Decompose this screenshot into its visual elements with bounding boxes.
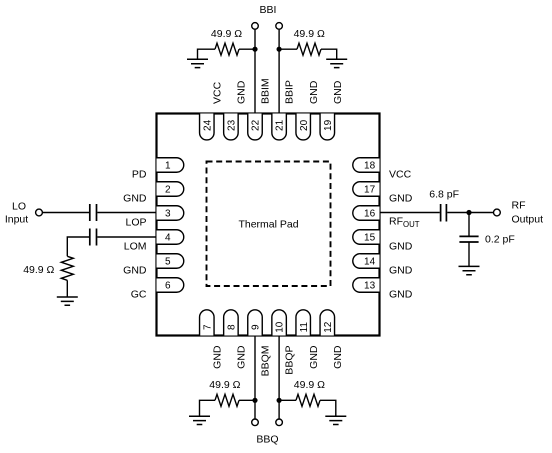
junction BBQM	[252, 398, 257, 403]
pin 8	[224, 310, 239, 336]
svg-text:12: 12	[323, 321, 334, 333]
svg-text:14: 14	[364, 257, 376, 268]
svg-text:3: 3	[165, 209, 171, 220]
svg-text:GND: GND	[211, 345, 223, 369]
terminal BBQ minus	[252, 419, 259, 426]
IC body U1 (QFN-24)	[157, 114, 380, 336]
svg-text:GND: GND	[332, 80, 344, 104]
svg-text:BBQM: BBQM	[260, 346, 272, 377]
terminal BBQ plus	[276, 419, 283, 426]
pin 18	[353, 158, 380, 173]
ground (BBI left)	[187, 59, 208, 67]
svg-text:23: 23	[227, 119, 238, 131]
svg-text:GND: GND	[389, 264, 413, 276]
pin 12	[320, 310, 335, 336]
svg-text:15: 15	[364, 233, 376, 244]
svg-text:7: 7	[202, 324, 213, 330]
pin 13	[353, 278, 380, 293]
resistor 49.9 ohm (BBQ right)	[296, 394, 320, 406]
terminal RF output	[494, 209, 501, 216]
ground (LO term)	[57, 297, 78, 305]
svg-text:49.9 Ω: 49.9 Ω	[294, 379, 325, 391]
pin 6	[157, 278, 184, 293]
svg-text:49.9 Ω: 49.9 Ω	[294, 28, 325, 40]
svg-text:Output: Output	[512, 214, 544, 226]
capacitor C1 (LOP coupling)	[90, 204, 97, 221]
svg-text:10: 10	[275, 321, 286, 333]
pin 2	[157, 182, 184, 197]
wire junction to C4	[468, 213, 470, 237]
pin 23	[224, 114, 239, 140]
resistor 49.9 ohm (LO term)	[61, 256, 73, 280]
wire RFOUT pin16 to C3	[380, 212, 440, 214]
wire C3 to RF output terminal	[447, 212, 493, 214]
pin 11	[296, 310, 311, 336]
svg-text:49.9 Ω: 49.9 Ω	[209, 379, 240, 391]
svg-text:PD: PD	[132, 168, 147, 180]
pin 14	[353, 254, 380, 269]
pin 22	[248, 114, 263, 140]
resistor 49.9 ohm (BBQ left)	[215, 394, 239, 406]
svg-text:16: 16	[364, 209, 376, 220]
wire C2 to LOM pin 4	[97, 236, 156, 238]
svg-text:GND: GND	[389, 240, 413, 252]
pin 17	[353, 182, 380, 197]
svg-text:BBQP: BBQP	[284, 346, 296, 375]
svg-text:GND: GND	[123, 192, 147, 204]
svg-text:24: 24	[202, 119, 213, 131]
svg-text:18: 18	[364, 161, 376, 172]
svg-text:BBIP: BBIP	[284, 80, 296, 104]
svg-text:5: 5	[165, 257, 171, 268]
pin 5	[157, 254, 184, 269]
wire C2 to R term	[67, 237, 89, 256]
svg-text:GND: GND	[308, 345, 320, 369]
capacitor C4 0.2 pF	[459, 236, 478, 242]
wire BBIM vertical	[254, 29, 256, 113]
svg-text:GND: GND	[236, 80, 248, 104]
svg-text:BBIM: BBIM	[260, 78, 272, 104]
resistor 49.9 ohm (BBI right)	[297, 43, 321, 55]
terminal BBI plus	[276, 23, 283, 30]
pin 1	[157, 158, 184, 173]
svg-text:4: 4	[165, 233, 171, 244]
svg-text:GND: GND	[308, 80, 320, 104]
wire BBIP vertical	[278, 29, 280, 113]
svg-text:19: 19	[323, 119, 334, 131]
pin 9	[248, 310, 263, 336]
wire BBQM vertical	[254, 336, 256, 420]
wire R to ground	[66, 280, 68, 297]
pin 7	[200, 310, 215, 336]
wire C4 to ground	[468, 242, 470, 266]
svg-text:49.9 Ω: 49.9 Ω	[23, 264, 54, 276]
capacitor C3 6.8 pF	[441, 204, 447, 222]
pin 3	[157, 206, 184, 221]
svg-text:Input: Input	[5, 213, 28, 225]
pin 10	[272, 310, 287, 336]
svg-text:6: 6	[165, 281, 171, 292]
pin 20	[296, 114, 311, 140]
junction RF output	[466, 210, 471, 215]
ground (BBQ left)	[189, 416, 210, 424]
wire BBQ left resistor leads	[200, 400, 256, 416]
svg-text:RF: RF	[512, 200, 526, 212]
wire BBI left resistor leads	[198, 49, 256, 59]
svg-text:20: 20	[299, 119, 310, 131]
terminal BBI minus	[252, 23, 259, 30]
svg-text:GC: GC	[131, 288, 147, 300]
capacitor C2 (LOM coupling)	[90, 229, 97, 246]
terminal LO input	[36, 209, 43, 216]
svg-text:GND: GND	[123, 264, 147, 276]
ground (RF output)	[459, 266, 480, 274]
svg-text:GND: GND	[332, 345, 344, 369]
thermal pad	[207, 162, 331, 287]
resistor 49.9 ohm (BBI left)	[215, 43, 239, 55]
svg-text:BBI: BBI	[260, 4, 277, 16]
pin 16	[353, 206, 380, 221]
svg-text:LO: LO	[12, 201, 26, 213]
svg-text:VCC: VCC	[389, 168, 412, 180]
svg-text:0.2 pF: 0.2 pF	[485, 233, 515, 245]
wire C1 to LOP pin 3	[97, 212, 156, 214]
svg-text:13: 13	[364, 281, 376, 292]
svg-text:22: 22	[251, 119, 262, 131]
svg-text:2: 2	[165, 185, 171, 196]
svg-text:LOP: LOP	[125, 216, 146, 228]
wire BBQ right resistor leads	[279, 400, 336, 416]
junction BBIP	[277, 47, 282, 52]
svg-text:BBQ: BBQ	[256, 434, 278, 446]
pin 21	[272, 114, 287, 140]
junction BBIM	[252, 47, 257, 52]
svg-text:GND: GND	[236, 345, 248, 369]
wire LO input to C1	[42, 212, 89, 214]
pin 19	[320, 114, 335, 140]
pin 15	[353, 230, 380, 245]
pin 4	[157, 230, 184, 245]
svg-text:LOM: LOM	[124, 240, 147, 252]
svg-text:RFOUT: RFOUT	[389, 216, 420, 230]
svg-text:GND: GND	[389, 192, 413, 204]
svg-text:11: 11	[299, 322, 310, 333]
svg-text:21: 21	[275, 119, 286, 131]
svg-text:17: 17	[364, 185, 376, 196]
ground (BBQ right)	[325, 416, 346, 424]
pin 24	[200, 114, 215, 140]
svg-text:49.9 Ω: 49.9 Ω	[211, 28, 242, 40]
wire BBI right resistor leads	[279, 49, 337, 59]
wire BBQP vertical	[278, 336, 280, 420]
svg-text:Thermal Pad: Thermal Pad	[238, 219, 298, 231]
junction BBQP	[277, 398, 282, 403]
svg-text:8: 8	[227, 324, 238, 330]
svg-text:VCC: VCC	[211, 81, 223, 104]
svg-text:1: 1	[165, 161, 171, 172]
svg-text:GND: GND	[389, 288, 413, 300]
svg-text:6.8 pF: 6.8 pF	[429, 188, 459, 200]
ground (BBI right)	[326, 59, 347, 67]
svg-text:9: 9	[251, 324, 262, 330]
